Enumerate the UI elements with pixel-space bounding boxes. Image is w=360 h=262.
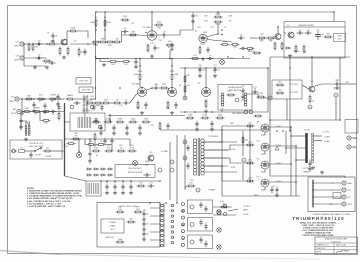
resistor R26: [171, 73, 179, 82]
title block row line 1: [315, 242, 358, 244]
diode D1: [285, 47, 291, 50]
wire w-m10: [313, 196, 342, 198]
svg-text:C21: C21: [213, 65, 216, 67]
wire w-c4: [168, 30, 191, 35]
junction D2-2: [194, 111, 196, 113]
svg-text:MODEL 60: MODEL 60: [332, 241, 341, 243]
junction D43: [184, 141, 186, 143]
svg-text:R40: R40: [186, 75, 189, 77]
resistor R76: [58, 112, 60, 121]
ground G26: [311, 166, 315, 170]
capacitor C37: [334, 86, 341, 89]
resistor R6: [69, 28, 78, 32]
junction D2-6: [227, 56, 229, 58]
svg-text:C20: C20: [198, 65, 201, 67]
resistor R37: [184, 85, 186, 94]
svg-text:POWER OUTPUT: 60 WATTS RMS: POWER OUTPUT: 60 WATTS RMS: [303, 226, 333, 229]
wire w-f5: [90, 98, 96, 100]
node N21: [244, 110, 247, 113]
svg-text:3. VOLTAGES MEASURED TO CHASSI: 3. VOLTAGES MEASURED TO CHASSIS GROUND W…: [27, 195, 82, 198]
svg-text:UNIT 4AB3C1B: UNIT 4AB3C1B: [229, 89, 242, 92]
capacitor C56: [199, 202, 202, 208]
junction D21: [267, 67, 269, 69]
junction D2-18: [165, 202, 167, 204]
resistor R24: [66, 94, 75, 100]
wire w-jbot: [24, 65, 46, 67]
ground G31b: [198, 74, 202, 78]
node N24: [224, 213, 227, 216]
wire w-ot stub3: [286, 147, 305, 149]
ground G25: [129, 191, 133, 195]
wire w-cath bus: [245, 195, 300, 197]
resistor R11b: [99, 39, 108, 43]
resistor R33: [104, 119, 113, 123]
svg-text:47K: 47K: [124, 64, 128, 66]
transformer winding power transformer primary L: [25, 125, 27, 136]
resistor R51: [105, 148, 114, 152]
svg-text:LAMP: LAMP: [243, 209, 249, 212]
junction D2-10: [311, 56, 313, 58]
svg-text:1M: 1M: [116, 99, 119, 101]
tube V12: [261, 179, 269, 187]
wire bus y68: [180, 67, 268, 69]
transformer winding driver transformer secondary: [201, 139, 204, 175]
svg-text:MIC: MIC: [13, 109, 17, 111]
svg-text:DRAWN BY AMERICAN 7/3/85: DRAWN BY AMERICAN 7/3/85: [305, 232, 331, 235]
node N3: [183, 96, 187, 100]
transformer winding power transformer primary R: [28, 125, 30, 136]
svg-text:470K: 470K: [118, 119, 123, 121]
resistor R18: [199, 46, 201, 55]
supply label box: [101, 219, 124, 233]
svg-text:68K: 68K: [108, 45, 112, 47]
wire w-j2: [24, 57, 47, 59]
svg-text:C11: C11: [210, 27, 213, 29]
potentiometer P8: [166, 41, 175, 48]
wire w-f3: [60, 98, 65, 100]
junction D51: [249, 144, 251, 146]
potentiometer P4: [258, 34, 267, 41]
wire w-h1: [213, 206, 232, 208]
footswitch box 2: [79, 87, 93, 93]
ground G22: [105, 191, 109, 195]
junction D32: [84, 98, 86, 100]
svg-text:INPUT: INPUT: [11, 113, 17, 115]
svg-text:HTRS: HTRS: [244, 214, 250, 216]
node N7: [268, 96, 272, 100]
heater box 1: [188, 200, 213, 214]
node socket pin 2: [190, 223, 194, 227]
resistor R69: [97, 141, 106, 145]
node terminal W3: [182, 216, 185, 219]
junction D50: [249, 125, 251, 127]
wire w-c5b: [100, 59, 109, 62]
wire bus y115: [108, 115, 185, 117]
node terminal T4: [161, 219, 164, 222]
capacitor C45: [121, 184, 124, 190]
ground G12: [32, 109, 36, 113]
ground G27: [275, 194, 279, 198]
junction D61: [182, 224, 184, 226]
wire w-b3: [78, 31, 89, 38]
junction D2-5: [242, 56, 244, 58]
wire w-m2: [285, 131, 287, 154]
transformer winding reverb coil R: [244, 93, 247, 106]
wire w-bias vertical: [242, 131, 244, 156]
node N9: [158, 168, 162, 172]
resistor R60: [127, 221, 136, 223]
wire w-g4: [130, 94, 138, 104]
resistor R13b: [113, 39, 122, 43]
wire w-c2: [122, 34, 148, 37]
resistor R32: [92, 119, 101, 123]
svg-text:V10: V10: [256, 141, 259, 143]
tube V4: [168, 85, 183, 97]
wire w-k3: [78, 139, 80, 152]
junction D8: [104, 11, 106, 13]
wire w-c3: [157, 34, 161, 36]
junction D39: [106, 180, 108, 182]
capacitor C61: [103, 138, 106, 144]
resistor R21: [295, 45, 297, 54]
svg-text:INPUT: INPUT: [9, 101, 16, 103]
junction D2-7: [169, 58, 171, 60]
node terminal U8: [171, 241, 173, 243]
wire w-d1: [217, 12, 219, 15]
junction D49: [221, 165, 223, 167]
capacitor C34: [195, 121, 198, 127]
capacitor C58: [199, 219, 202, 225]
wire w-d4: [207, 40, 232, 43]
resistor R38: [205, 100, 207, 109]
jack J5: [347, 145, 351, 149]
junction D38: [100, 180, 102, 182]
svg-text:40: 40: [106, 182, 108, 184]
capacitor C64: [50, 110, 57, 116]
junction D58: [161, 214, 163, 216]
node terminal U4: [171, 220, 173, 222]
svg-text:C49: C49: [271, 186, 274, 188]
svg-text:ADJ: ADJ: [145, 164, 148, 167]
lamp HX2: [217, 228, 221, 232]
svg-text:100K: 100K: [157, 22, 162, 24]
capacitor C38: [241, 88, 244, 94]
capacitor C41: [88, 158, 91, 164]
svg-text:.02: .02: [74, 41, 77, 43]
resistor R57b: [246, 160, 255, 164]
svg-text:R60: R60: [129, 219, 132, 221]
svg-text:470K: 470K: [131, 32, 136, 34]
junction D14: [95, 87, 97, 89]
wire w-f4: [75, 98, 85, 100]
junction D20: [205, 67, 207, 69]
junction D2: [38, 57, 40, 59]
svg-text:20: 20: [130, 182, 132, 184]
wire vertical x185 reverb: [184, 68, 186, 97]
svg-text:BIAS RECT: BIAS RECT: [82, 110, 92, 113]
capacitor C67: [57, 104, 60, 110]
wire w-j2b: [25, 121, 27, 125]
capacitor C54: [142, 221, 149, 227]
capacitor C16: [305, 31, 312, 34]
svg-text:10K: 10K: [118, 209, 122, 211]
capacitor C24b: [123, 99, 130, 104]
tube V9: [261, 124, 269, 132]
wire w-d2: [208, 34, 219, 37]
lamp NE1: [133, 161, 138, 166]
title block row line 2: [315, 245, 358, 247]
svg-text:R54: R54: [139, 183, 142, 185]
capacitor C1: [51, 33, 58, 39]
potentiometer P9: [33, 107, 42, 115]
capacitor C65: [19, 118, 22, 124]
wire bus y112: [180, 111, 268, 113]
wire w-cath1: [261, 132, 265, 135]
resistor R31: [167, 101, 169, 110]
node N11: [183, 140, 187, 144]
junction D16: [139, 65, 141, 67]
junction D76: [141, 87, 143, 89]
capacitor C70: [186, 163, 189, 169]
svg-text:Q6: Q6: [150, 152, 152, 154]
node N18: [217, 211, 221, 215]
reverb driver enclosure: [284, 22, 345, 59]
junction D68: [295, 145, 297, 147]
wire bus y130: [160, 129, 270, 131]
wire w-route3: [203, 158, 246, 163]
resistor R67: [254, 115, 263, 117]
resistor R73: [281, 42, 283, 51]
resistor R28: [94, 102, 103, 107]
svg-text:7. LAST R USED R64 - LAST C US: 7. LAST R USED R64 - LAST C USED C38: [27, 205, 66, 208]
ground G6: [134, 65, 138, 69]
junction D2-4: [221, 129, 223, 131]
svg-text:R30: R30: [326, 34, 329, 36]
wire w-h1: [205, 68, 207, 88]
wire w-route4: [203, 166, 246, 181]
signature squiggle: [336, 250, 349, 254]
diode D8: [100, 174, 106, 177]
svg-text:100K: 100K: [218, 115, 223, 117]
svg-text:BIAS -52V: BIAS -52V: [106, 236, 115, 239]
capacitor C26: [153, 85, 160, 90]
junction D2-11: [95, 58, 97, 60]
junction D2-9: [171, 58, 173, 60]
capacitor C63: [94, 118, 97, 124]
node terminal U5: [171, 226, 173, 228]
capacitor C53: [142, 211, 149, 217]
diode D2: [86, 168, 92, 171]
junction D7: [95, 56, 97, 58]
ground G23: [113, 191, 117, 195]
heater box 3: [188, 235, 213, 249]
svg-text:INPUT: INPUT: [14, 60, 21, 62]
svg-text:100K: 100K: [118, 239, 123, 241]
junction D10: [217, 11, 219, 13]
wire w-j2c: [21, 121, 29, 125]
wire w-pinrow4: [150, 239, 160, 241]
fuse F1: [19, 150, 25, 153]
svg-text:12AX7: 12AX7: [200, 43, 205, 46]
ground G20: [195, 128, 199, 132]
wire w-br1: [65, 121, 71, 123]
svg-text:1M: 1M: [116, 39, 119, 41]
svg-text:TRANS: TRANS: [303, 170, 310, 173]
svg-text:50K: 50K: [233, 47, 237, 49]
wire w-k5: [129, 139, 131, 147]
ground G8: [191, 20, 195, 24]
ground G18: [125, 132, 129, 136]
title block row line 3: [315, 249, 358, 251]
resistor R56: [246, 142, 255, 146]
resistor R11: [129, 32, 138, 36]
junction D70: [295, 181, 297, 183]
resistor R17: [214, 21, 223, 26]
capacitor C69: [186, 145, 189, 151]
wire w-l3: [203, 157, 228, 159]
wire w-i1: [302, 85, 309, 89]
junction D77: [171, 87, 173, 89]
phase splitter box: [272, 80, 302, 99]
resistor R5: [67, 47, 69, 56]
resistor R25: [134, 73, 141, 82]
wire vertical x340: [339, 57, 341, 120]
resistor R70: [221, 41, 230, 46]
junction D52: [249, 162, 251, 164]
junction D62: [182, 238, 184, 240]
svg-text:220K: 220K: [96, 105, 101, 107]
wire w-plate4: [269, 181, 296, 183]
wire w-g8: [171, 82, 173, 88]
resistor R55: [246, 123, 255, 127]
junction D41: [122, 180, 124, 182]
transformer winding reverb coil L: [221, 93, 224, 106]
wire w-e2: [284, 26, 345, 28]
ground GJ: [24, 138, 28, 142]
wire top supply rail: [96, 12, 335, 21]
wire w-l4: [203, 165, 228, 167]
wire w-b4: [70, 43, 96, 45]
node terminal T3: [161, 214, 164, 217]
ground G17: [112, 132, 116, 136]
svg-text:68K: 68K: [104, 99, 108, 101]
junction D27: [184, 111, 186, 113]
svg-text:C27: C27: [241, 100, 244, 102]
node terminal U6: [171, 231, 173, 233]
svg-text:V9: V9: [257, 122, 259, 124]
wire w-c0: [121, 32, 124, 43]
resistor R29: [137, 101, 139, 110]
transformer hatch: [88, 183, 99, 194]
ground G29: [320, 171, 324, 175]
capacitor C51: [308, 161, 311, 167]
junction D13: [119, 87, 121, 89]
tube V5: [198, 83, 211, 97]
wire w-h2: [213, 214, 236, 216]
ground G9: [201, 57, 205, 61]
svg-text:SPKR: SPKR: [353, 138, 359, 140]
resistor R8: [90, 19, 97, 28]
svg-text:R58: R58: [118, 207, 121, 209]
resistor R74: [42, 111, 51, 113]
wire w-j3: [52, 150, 65, 152]
node socket pin 1: [190, 205, 194, 209]
wire w-f1: [19, 98, 60, 100]
svg-text:C16: C16: [306, 30, 309, 32]
svg-text:C47: C47: [149, 183, 152, 185]
svg-text:100K: 100K: [174, 74, 179, 76]
svg-text:R51 220K: R51 220K: [290, 84, 299, 86]
svg-text:TRIAD ELECTRONICS AMP: TRIAD ELECTRONICS AMP: [325, 238, 349, 241]
svg-text:220K: 220K: [188, 115, 193, 117]
svg-text:R44: R44: [227, 91, 230, 93]
svg-text:C7: C7: [163, 38, 165, 40]
capacitor C66: [19, 124, 22, 130]
junction D66: [295, 159, 297, 161]
ground G30: [142, 218, 146, 222]
resistor R1: [28, 43, 30, 52]
svg-text:TO PILOT: TO PILOT: [243, 206, 252, 208]
wire w-m8: [313, 182, 342, 184]
wire w-i4: [246, 94, 268, 98]
lamp PL1: [76, 152, 81, 157]
capacitor C50: [270, 187, 273, 193]
svg-text:R41: R41: [186, 85, 189, 87]
junction D9: [151, 11, 153, 13]
svg-text:BASS: BASS: [67, 94, 73, 97]
wire w-i6: [335, 97, 337, 120]
wire w-plate3: [269, 163, 291, 165]
node N23: [224, 205, 227, 208]
junction D72: [145, 32, 147, 34]
capacitor C15: [297, 31, 304, 34]
wire w-pi-down: [286, 99, 288, 120]
svg-text:10K: 10K: [44, 123, 48, 125]
capacitor C47: [148, 184, 155, 187]
junction D35: [89, 138, 91, 140]
capacitor C44: [113, 184, 116, 190]
wire vertical x222 down: [221, 130, 223, 158]
ground G32b: [213, 74, 217, 78]
node terminal U7: [171, 236, 173, 238]
potentiometer P3: [246, 48, 256, 53]
svg-text:DATE 2-6-85: DATE 2-6-85: [336, 244, 346, 247]
junction D24: [269, 119, 271, 121]
junction D71: [285, 147, 287, 149]
svg-text:6. DC VOLTAGES +/- 10%, AC +/-: 6. DC VOLTAGES +/- 10%, AC +/- 15%: [27, 202, 61, 205]
capacitor C52: [308, 166, 311, 172]
svg-text:DRAWN BY J.O.: DRAWN BY J.O.: [317, 244, 330, 247]
junction D4: [66, 43, 68, 45]
ground G32: [142, 238, 146, 242]
lamp LDR: [220, 60, 225, 65]
junction D75: [205, 87, 207, 89]
capacitor C60: [199, 237, 202, 243]
wire w-d3: [250, 37, 257, 39]
wire left bus vertical x95: [95, 12, 97, 100]
jack arrow J4: [352, 137, 357, 139]
wire w-ot stub1: [291, 135, 305, 137]
jack J8: [342, 195, 346, 199]
capacitor C31: [198, 67, 205, 73]
svg-text:TUBE COMPL.: 12AX7 (4), 6L6GC: TUBE COMPL.: 12AX7 (4), 6L6GC (2): [302, 224, 334, 227]
junction D55: [312, 189, 314, 191]
capacitor C68: [29, 152, 32, 158]
ground G1: [51, 40, 55, 44]
resistor R45: [276, 92, 285, 94]
wire w-g1: [139, 59, 141, 73]
junction D2-15: [289, 67, 291, 69]
